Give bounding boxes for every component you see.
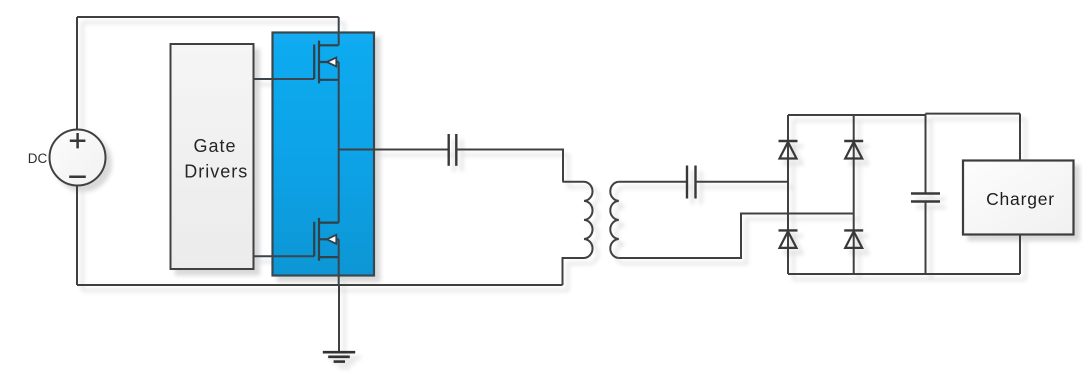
wire: DC left vertical [76, 17, 78, 285]
diode D3 [779, 230, 798, 248]
wire: charger to bottom rail [1019, 235, 1021, 275]
wire: Q1 drain to top rail [338, 17, 340, 45]
wire: bridge bottom rail [788, 273, 1020, 275]
wire: bridge right leg [853, 115, 855, 274]
capacitor C1 [449, 134, 457, 166]
svg-text:Gate: Gate [193, 136, 236, 156]
wire: C1 to transformer primary [456, 150, 563, 182]
wire: switch node vertical [338, 62, 340, 223]
transformer primary winding L1 [563, 182, 593, 285]
wire: gate lead Q1 [254, 78, 315, 80]
ground [323, 285, 355, 362]
charger block [963, 161, 1074, 235]
svg-text:DC: DC [28, 151, 48, 166]
wire: bridge left leg [787, 115, 789, 274]
mosfet Q2 [314, 218, 339, 261]
wire: switch node to C1 [339, 149, 449, 151]
diode D2 [844, 141, 863, 159]
capacitor C3 (filter) [911, 114, 940, 274]
half-bridge module (blue box) [273, 33, 375, 276]
wire: bridge top rail [788, 114, 1020, 115]
svg-text:Drivers: Drivers [184, 162, 248, 182]
wire: secondary bottom to bridge right leg [619, 214, 854, 259]
diode D4 [844, 230, 863, 248]
wire: bottom return rail [77, 284, 563, 286]
diode D1 [779, 141, 798, 159]
transformer secondary winding L2 [610, 182, 619, 258]
wire: gate lead Q2 [254, 255, 315, 257]
gate drivers block U1 [171, 44, 254, 269]
wire: DC+ top rail [77, 16, 339, 18]
mosfet Q1 [314, 41, 339, 84]
dc source V1 [50, 130, 106, 186]
wire: Q2 source to bottom rail and ground [338, 239, 340, 285]
wire: top rail to charger [1019, 114, 1021, 161]
svg-text:Charger: Charger [986, 189, 1055, 209]
wire: secondary top to C2 [619, 181, 687, 183]
capacitor C2 [687, 166, 696, 199]
wire: C2 to bridge left leg [696, 181, 789, 183]
